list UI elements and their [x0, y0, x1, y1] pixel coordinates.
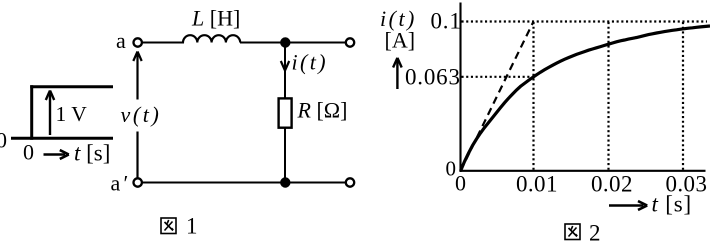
caption figure 2: hand-drawn kanji ZU [565, 224, 580, 240]
dotted level 0.1 [462, 20, 708, 22]
svg-text:v(t): v(t) [121, 102, 162, 127]
dotted vertical at t=0.02 [607, 22, 609, 170]
graph y axis [459, 3, 461, 173]
terminal a [134, 38, 142, 46]
current arrow i(t) [281, 61, 289, 71]
svg-text:i(t): i(t) [292, 50, 328, 75]
dotted vertical at t=0.03 [682, 22, 684, 170]
wire resistor to bottom node [284, 128, 286, 183]
bottom wire [141, 182, 347, 184]
svg-text:a′: a′ [111, 171, 132, 196]
svg-text:0.01: 0.01 [516, 172, 558, 197]
graph x axis [460, 170, 706, 172]
t axis arrow of source [44, 150, 69, 159]
wire top right [240, 42, 347, 44]
svg-text:R [Ω]: R [Ω] [297, 98, 348, 123]
voltage arrow v(t) upper segment with head [133, 52, 141, 100]
caption figure 1: hand-drawn kanji ZU [161, 218, 176, 234]
terminal right top [346, 38, 354, 46]
svg-text:1: 1 [186, 214, 198, 239]
svg-text:0.063: 0.063 [405, 65, 461, 90]
svg-text:1 V: 1 V [56, 102, 88, 126]
exponential response curve [461, 26, 710, 171]
svg-text:0: 0 [23, 140, 34, 165]
wire from top node down to resistor [284, 43, 286, 100]
y axis arrow [393, 58, 402, 89]
svg-text:0.02: 0.02 [591, 172, 633, 197]
junction node top [280, 37, 290, 47]
step source high level [30, 85, 113, 88]
svg-text:2: 2 [589, 221, 601, 246]
svg-text:0: 0 [455, 171, 466, 196]
wire top left [141, 42, 184, 44]
step source baseline [11, 137, 113, 140]
dotted level 0.063 [462, 76, 535, 78]
step source rising edge [30, 85, 33, 140]
svg-text:a: a [116, 28, 126, 53]
junction node bottom [280, 177, 290, 187]
resistor R1 [279, 98, 292, 127]
1V arrow [46, 91, 54, 136]
dotted vertical at t=0.01 [532, 22, 534, 170]
svg-text:t [s]: t [s] [652, 192, 692, 217]
t axis arrow of graph [609, 201, 647, 210]
terminal right bottom [346, 178, 354, 186]
svg-text:[A]: [A] [385, 28, 416, 53]
svg-text:0: 0 [0, 128, 7, 153]
voltage arrow v(t) lower segment [136, 132, 138, 178]
svg-text:L [H]: L [H] [191, 6, 240, 31]
inductor L1 [183, 35, 240, 42]
terminal a-prime [134, 178, 142, 186]
svg-text:t [s]: t [s] [74, 141, 110, 166]
dashed initial-slope tangent line [461, 22, 534, 172]
svg-text:0.1: 0.1 [431, 9, 462, 34]
